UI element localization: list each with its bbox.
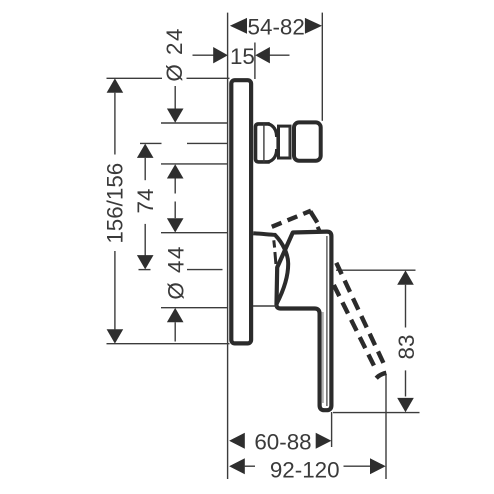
dimension 60-88: left arrow — [229, 433, 245, 449]
wire: extension line plate top, right segment — [187, 77, 230, 79]
svg-text:54-82: 54-82 — [248, 15, 305, 40]
handle base cone silhouette — [253, 233, 288, 303]
dimension 156/156: bottom line and arrow — [114, 251, 116, 329]
dashed lever alternate position: tip end cap — [376, 373, 386, 378]
svg-text:83: 83 — [394, 335, 419, 360]
svg-text:60-88: 60-88 — [254, 429, 311, 454]
dashed lever alternate position: left body edge dash 1 — [272, 240, 276, 247]
wire: extension line plate top, left segment — [107, 77, 163, 79]
svg-text:92-120: 92-120 — [270, 457, 340, 482]
lever handle body (solid position) — [276, 232, 331, 411]
dimension D44: lower up arrow with tail — [167, 308, 184, 322]
svg-text:Ø 24: Ø 24 — [162, 27, 187, 82]
dashed lever alternate position: corner dash — [310, 211, 317, 222]
dimension 60-88: right arrow — [316, 433, 332, 449]
svg-text:74: 74 — [133, 189, 158, 214]
dashed lever alternate position: grip right edge — [336, 263, 385, 367]
wire: extension line from plate right edge (top) — [254, 43, 256, 80]
wire: handle centerline right segment to 83 dimension — [336, 269, 416, 271]
wire: extension line plate bottom — [107, 343, 230, 345]
dimension 15: right arrow with tail — [270, 54, 290, 56]
dashed lever alternate position: dash remnant crossing lever top edge — [318, 227, 320, 231]
dashed lever alternate position: top edge — [272, 211, 311, 227]
wire: extension line from knob right end (top) — [321, 13, 323, 121]
wire: extension line knob top edge — [161, 122, 227, 124]
dimension 15: left arrow with tail — [193, 54, 214, 56]
wire: extension line lever bottom to 83 dimension — [333, 412, 420, 414]
wire: extension line handle escutcheon top — [161, 232, 227, 234]
dimension 83: top arrow and line — [397, 270, 414, 284]
dimension 54-82: right arrow — [305, 18, 322, 34]
svg-text:15: 15 — [230, 44, 255, 69]
knob middle section inner line — [288, 127, 290, 158]
svg-text:Ø 44: Ø 44 — [164, 245, 189, 300]
knob waist junction line — [276, 136, 279, 150]
dimension 74: bottom line and arrow — [144, 224, 146, 256]
dimension 74: top arrow and line — [137, 144, 154, 158]
lever inner contour line — [326, 236, 328, 406]
dashed lever alternate position: left body edge dash 2 — [275, 252, 276, 264]
wire: extension line handle escutcheon bottom — [161, 307, 227, 309]
wire: handle centerline left segment — [139, 269, 151, 271]
dimension 92-120: right arrow with tail — [344, 465, 372, 467]
dimension D24: lower up arrow with tail — [167, 164, 184, 178]
knob neck (pinched trumpet) — [268, 124, 277, 162]
wire: knob centerline left segment — [140, 142, 162, 144]
dimension 156/156: top arrow and line — [107, 78, 124, 92]
dimension 54-82: left arrow — [230, 18, 247, 34]
handle base cone bottom thin edge — [253, 305, 277, 307]
wire: knob centerline right segment — [187, 142, 227, 144]
knob sleeve on plate — [256, 124, 270, 162]
wire: extension line knob bottom edge — [161, 163, 227, 165]
dimension 92-120: left arrow with tail — [229, 458, 245, 474]
wire: extension line from plate left edge (vertical full height) — [227, 13, 229, 479]
wire: extension line from dashed lever tip (bottom right) — [385, 374, 387, 479]
wire: extension line from lever right edge (bottom) — [331, 412, 333, 447]
dimension D24: upper stub and down arrow — [174, 86, 176, 109]
dimension 83: bottom line and arrow — [405, 370, 407, 396]
svg-text:156/156: 156/156 — [103, 163, 128, 244]
wire: handle centerline middle segment — [187, 269, 223, 271]
dimension D44: upper down arrow with tail — [174, 202, 176, 219]
dashed lever alternate position: grip left edge — [334, 285, 376, 368]
knob head (shut-off handle) — [294, 122, 321, 160]
lever grip highlight line — [322, 312, 324, 403]
knob middle section — [279, 126, 291, 158]
wall plate (escutcheon, side view) — [231, 80, 251, 343]
knob sleeve inner flange line — [263, 124, 265, 163]
